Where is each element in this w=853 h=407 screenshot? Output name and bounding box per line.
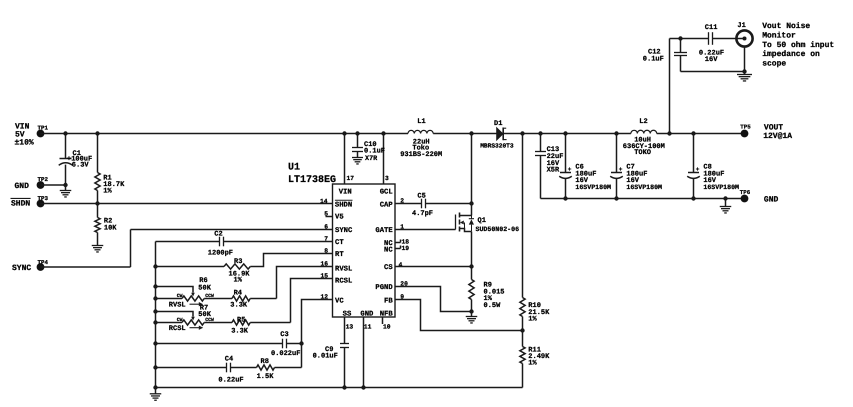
capacitor C8 [687, 134, 739, 199]
test point TP5 [740, 123, 751, 137]
pin number 12 [320, 293, 328, 300]
stub NC pin 19 [395, 246, 401, 249]
wire C5 to drain [426, 203, 472, 205]
svg-text:CW: CW [177, 317, 183, 323]
junction FB/R10/R11 [520, 328, 524, 332]
resistor R8 [231, 358, 302, 381]
svg-text:1%: 1% [234, 277, 243, 285]
pin number 19 [402, 245, 410, 252]
svg-text:C3: C3 [280, 331, 288, 339]
svg-text:To 50 ohm input: To 50 ohm input [762, 41, 834, 50]
inductor L1 [400, 118, 442, 159]
svg-text:C4: C4 [225, 356, 233, 364]
svg-text:R4: R4 [234, 290, 242, 298]
svg-text:TP6: TP6 [740, 189, 751, 196]
svg-text:Q1: Q1 [478, 217, 486, 225]
diode D1 [480, 120, 514, 149]
test point TP2 [37, 176, 49, 189]
svg-text:GND: GND [15, 182, 30, 191]
wire RCSL pin 15 [291, 279, 333, 323]
svg-text:GND: GND [360, 310, 374, 318]
junction C10/rail [355, 131, 359, 135]
test point TP6 [740, 189, 751, 203]
svg-text:RT: RT [335, 251, 344, 259]
pin number 14 [320, 198, 328, 205]
svg-text:V5: V5 [335, 214, 344, 222]
junction pin17/rail [342, 131, 346, 135]
svg-text:CAP: CAP [380, 201, 394, 209]
pin number 5 [324, 210, 328, 217]
svg-text:SHDN: SHDN [11, 200, 30, 209]
junction C5/drain [469, 201, 473, 205]
capacitor C7 [610, 134, 662, 199]
resistor R2 [95, 204, 117, 246]
pin number 9 [400, 293, 404, 300]
wire CAP pin 2 [395, 203, 422, 205]
U1 pin label CAP [380, 201, 394, 209]
wire L1 to D1 [433, 133, 496, 135]
svg-text:GND: GND [764, 196, 779, 205]
junction bus/R6 wiper [153, 284, 157, 288]
op-amp U1 LT1738EG box [333, 184, 396, 317]
svg-text:L1: L1 [417, 118, 425, 126]
junction pin3/rail [381, 131, 385, 135]
wire TP2 to C1 [41, 184, 66, 186]
wire D1 to L2 [503, 133, 631, 135]
label RVSL adjust [169, 302, 203, 310]
svg-text:6: 6 [324, 223, 328, 230]
ground output bus [720, 199, 732, 213]
svg-text:MBRS320T3: MBRS320T3 [480, 142, 514, 149]
resistor R3 [156, 254, 333, 285]
wire VIN pin 17 [344, 134, 346, 185]
svg-text:10K: 10K [104, 224, 117, 232]
svg-text:VC: VC [335, 297, 344, 305]
junction R1/R2/SHDN [95, 201, 99, 205]
svg-text:12V@1A: 12V@1A [763, 132, 792, 141]
svg-text:1%: 1% [103, 188, 112, 196]
wire L2 to TP5 [657, 133, 745, 135]
junction gnd/bus [723, 196, 727, 200]
junction bus/C3 [153, 341, 157, 345]
wire CT pin 7 / capacitor C2 [156, 231, 333, 258]
pin number 4 [399, 262, 403, 269]
wire GATE pin 1 [395, 229, 456, 231]
ground R9 [466, 312, 478, 323]
svg-text:TOKO: TOKO [634, 149, 651, 157]
pin number 1 [400, 223, 404, 230]
svg-text:PGND: PGND [375, 284, 393, 292]
wire VC pin 12 [302, 300, 333, 368]
port label GND [15, 182, 30, 191]
svg-text:931BS-220M: 931BS-220M [400, 151, 442, 159]
svg-text:U1: U1 [288, 163, 300, 174]
U1 pin label FB [384, 297, 393, 305]
pin number 18 [402, 239, 410, 246]
junction J1 branch/rail [667, 131, 671, 135]
U1 pin label GATE [375, 227, 393, 235]
wire SYNC [41, 230, 333, 268]
potentiometer R7 [156, 305, 214, 326]
wire SS pin 13 [344, 317, 346, 344]
svg-text:RVSL: RVSL [335, 266, 352, 274]
U1 pin label RT [335, 251, 344, 259]
inductor L2 [623, 118, 665, 157]
svg-text:Vout Noise: Vout Noise [762, 22, 810, 31]
wire bottom return [156, 387, 523, 389]
junction C8/bus [691, 196, 695, 200]
svg-text:16SVP180M: 16SVP180M [575, 184, 611, 191]
U1 pin label VC [335, 297, 344, 305]
resistor R4 [204, 290, 276, 310]
svg-text:CW: CW [177, 293, 183, 299]
test point TP4 [37, 259, 49, 271]
U1 pin label NC 18 [384, 240, 393, 248]
svg-text:3.3K: 3.3K [231, 328, 249, 336]
svg-text:6.3V: 6.3V [72, 162, 90, 170]
svg-text:SYNC: SYNC [12, 264, 31, 273]
stub NFB pin 10 [382, 317, 384, 324]
svg-text:FB: FB [384, 297, 393, 305]
svg-text:0.01uF: 0.01uF [313, 353, 338, 361]
pin number 10 [383, 324, 391, 331]
junction bus/R6 [153, 296, 157, 300]
port label VOUT [763, 123, 792, 141]
svg-text:16SVP180M: 16SVP180M [626, 184, 662, 191]
junction GNDpin/bottom [361, 385, 365, 389]
svg-text:impedance on: impedance on [762, 50, 820, 59]
svg-text:TP2: TP2 [38, 176, 49, 183]
svg-text:0.22uF: 0.22uF [218, 377, 243, 385]
stub NC pin 18 [395, 240, 401, 243]
pin number 3 [385, 175, 389, 182]
pin number 20 [400, 280, 408, 287]
junction Q1 drain/rail [469, 131, 473, 135]
wire RVSL pin 16 [277, 267, 333, 299]
svg-text:GCL: GCL [380, 189, 393, 197]
label RCSL adjust [169, 325, 203, 333]
svg-text:3.3K: 3.3K [230, 302, 248, 310]
junction CS/source [469, 264, 473, 268]
U1 reference label [288, 163, 336, 187]
U1 pin label NC 19 [384, 247, 393, 255]
junction C13/rail [538, 131, 542, 135]
svg-text:4.7pF: 4.7pF [412, 210, 433, 218]
pin number 15 [320, 272, 328, 279]
svg-text:X7R: X7R [365, 155, 378, 163]
capacitor C12 [643, 39, 687, 72]
svg-text:13: 13 [346, 324, 354, 331]
U1 pin label RVSL [335, 266, 352, 274]
svg-text:0.022uF: 0.022uF [271, 350, 300, 358]
svg-text:SYNC: SYNC [335, 227, 353, 235]
svg-text:1%: 1% [528, 315, 537, 323]
U1 pin label SHDN [335, 200, 353, 209]
U1 pin label GND [360, 310, 374, 318]
svg-text:1200pF: 1200pF [208, 250, 233, 258]
svg-text:NC: NC [384, 247, 393, 255]
capacitor C9 [313, 344, 349, 388]
svg-text:19: 19 [402, 245, 410, 252]
junction bus/bottom [153, 385, 157, 389]
svg-text:TP1: TP1 [38, 125, 49, 132]
svg-text:14: 14 [320, 198, 328, 205]
svg-text:RCSL: RCSL [335, 278, 352, 286]
svg-text:RVSL: RVSL [169, 302, 186, 310]
capacitor C4 [156, 356, 244, 385]
svg-text:1%: 1% [528, 360, 537, 368]
svg-text:3: 3 [385, 175, 389, 182]
wire J1 to ground [742, 47, 746, 75]
svg-text:1.5K: 1.5K [257, 373, 275, 381]
svg-text:+: + [568, 166, 572, 173]
svg-text:SUD50N02-06: SUD50N02-06 [476, 226, 520, 233]
wire rail to R10 [522, 134, 524, 298]
svg-text:TP5: TP5 [740, 123, 751, 130]
junction VC/C3 [299, 341, 303, 345]
junction bus/R7 wiper [153, 309, 157, 313]
capacitor C6 [559, 134, 611, 199]
wire C12 to J1 ground [681, 71, 745, 73]
junction R1/VIN [95, 131, 99, 135]
capacitor C5 [412, 193, 433, 219]
junction C8/rail [691, 131, 695, 135]
U1 pin label CS [384, 264, 393, 272]
svg-text:50K: 50K [198, 284, 211, 292]
capacitor C10 [352, 134, 385, 163]
port label SYNC [12, 264, 31, 273]
wire noise branch [670, 39, 709, 134]
wire GND pin 11 [363, 317, 365, 388]
capacitor C3 [156, 331, 302, 358]
capacitor C11 [699, 24, 745, 64]
ground C1 [60, 185, 72, 197]
svg-text:CT: CT [335, 239, 344, 247]
pin number 7 [324, 235, 328, 242]
resistor R5 [204, 316, 290, 335]
ground bus symbol [150, 394, 162, 400]
resistor R11 [520, 331, 550, 388]
note text [762, 22, 834, 68]
svg-text:0.1uF: 0.1uF [643, 55, 664, 63]
port label SHDN [11, 198, 31, 208]
svg-text:0.5W: 0.5W [484, 302, 502, 310]
wire PGND pin 20 [395, 287, 472, 312]
wire CS pin 4 [395, 266, 472, 268]
svg-text:X5R: X5R [547, 167, 560, 175]
svg-text:SHDN: SHDN [335, 201, 352, 209]
wire R7 wiper [155, 312, 195, 321]
svg-text:10: 10 [383, 324, 391, 331]
svg-text:GATE: GATE [375, 227, 393, 235]
U1 pin label V5 [335, 214, 344, 222]
svg-text:Monitor: Monitor [762, 31, 796, 40]
junction C9/bottom [342, 385, 346, 389]
wire ground bus [155, 242, 157, 394]
svg-text:C5: C5 [417, 193, 425, 201]
junction C6/rail [563, 131, 567, 135]
body diode Q1 [469, 219, 474, 225]
wire SHDN row [41, 203, 333, 205]
svg-text:+: + [696, 166, 700, 173]
transistor Q1 [456, 213, 520, 234]
wire R6 wiper [155, 287, 195, 297]
junction C7/rail [614, 131, 618, 135]
U1 pin label NFB [380, 310, 394, 318]
U1 pin label SYNC [335, 227, 353, 235]
wire FB pin 9 [395, 300, 523, 331]
svg-text:4: 4 [399, 262, 403, 269]
U1 pin label RCSL [335, 278, 352, 286]
svg-text:C2: C2 [214, 231, 222, 239]
ground J1 [737, 75, 752, 81]
connector J1 [736, 22, 752, 47]
svg-text:R3: R3 [234, 258, 242, 266]
pin number 8 [324, 247, 328, 254]
ground C10 [352, 158, 363, 164]
pin number 11 [364, 324, 372, 331]
svg-text:R8: R8 [261, 358, 269, 366]
svg-text:16V: 16V [705, 56, 718, 64]
pin number 6 [324, 223, 328, 230]
svg-text:CS: CS [384, 264, 393, 272]
test point TP3 [37, 195, 49, 208]
pin number 13 [346, 324, 354, 331]
junction C1/VIN [63, 131, 67, 135]
wire switch node vertical [471, 134, 473, 280]
ground R2 [92, 246, 104, 252]
U1 pin label SS [343, 310, 352, 318]
svg-text:11: 11 [364, 324, 372, 331]
svg-text:RCSL: RCSL [169, 325, 186, 333]
pin number 2 [400, 198, 404, 205]
svg-text:VOUT: VOUT [764, 123, 783, 132]
svg-text:C11: C11 [705, 24, 718, 32]
junction bus/R7 [153, 320, 157, 324]
svg-text:17: 17 [347, 175, 355, 182]
svg-text:J1: J1 [737, 22, 745, 30]
capacitor C13 [535, 134, 563, 199]
port label GND out [764, 196, 779, 205]
stub V5 pin 5 [326, 216, 333, 218]
svg-text:TP3: TP3 [38, 195, 49, 202]
wire caps bottom bus [541, 198, 745, 200]
resistor R10 [520, 298, 550, 331]
U1 pin label VIN [339, 189, 352, 197]
svg-text:±10%: ±10% [15, 138, 34, 147]
pin number 16 [320, 260, 328, 267]
resistor R9 [469, 280, 505, 312]
junction R10/rail [520, 131, 524, 135]
U1 pin label PGND [375, 284, 393, 292]
svg-text:TP4: TP4 [38, 259, 49, 266]
svg-text:16SVP180M: 16SVP180M [703, 184, 739, 191]
svg-text:D1: D1 [494, 120, 502, 128]
capacitor C1 [59, 134, 93, 186]
junction C6/bus [563, 196, 567, 200]
junction C7/bus [614, 196, 618, 200]
wire VIN rail segment 1 [41, 133, 409, 135]
junction R9/PGND [469, 309, 473, 313]
svg-text:L2: L2 [639, 118, 647, 126]
resistor R1 [95, 134, 125, 204]
svg-text:LT1738EG: LT1738EG [288, 175, 336, 186]
junction bus/C4 [153, 365, 157, 369]
svg-text:scope: scope [762, 59, 786, 68]
potentiometer R6 [156, 277, 214, 301]
svg-text:+: + [619, 166, 623, 173]
U1 pin label GCL [380, 189, 393, 197]
pin number 17 [347, 175, 355, 182]
svg-text:R5: R5 [237, 316, 245, 324]
port label VIN 5V ±10% [15, 123, 34, 148]
svg-text:VIN: VIN [339, 189, 352, 197]
junction bus/R3 [153, 264, 157, 268]
junction C1/TP2 [63, 183, 67, 187]
junction C12 top [678, 36, 682, 40]
U1 pin label CT [335, 239, 344, 247]
test point TP1 [37, 125, 49, 138]
wire GCL pin 3 [383, 134, 385, 185]
